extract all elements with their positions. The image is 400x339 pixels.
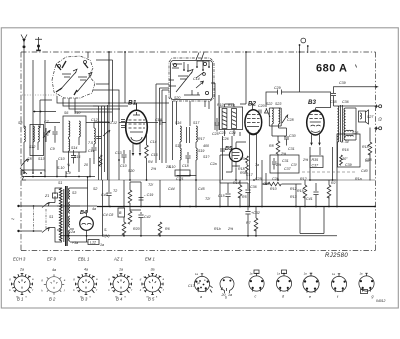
lamp box L12 — [88, 240, 99, 245]
svg-text:S15: S15 — [74, 155, 80, 159]
IF1 coil S16 — [180, 126, 181, 142]
svg-text:C39: C39 — [345, 163, 352, 167]
svg-text:7a: 7a — [255, 163, 259, 167]
svg-text:C25: C25 — [255, 177, 262, 181]
resistor R15 — [303, 185, 307, 198]
svg-text:C15: C15 — [218, 194, 225, 198]
svg-text:C43: C43 — [101, 193, 108, 197]
svg-text:b: b — [225, 296, 227, 300]
coil S9 — [33, 126, 34, 142]
svg-text:C24: C24 — [229, 131, 236, 135]
tuning gang enclosure — [52, 56, 95, 98]
lamp diagram c — [249, 270, 264, 299]
IF2 box rails — [269, 108, 281, 126]
svg-text:R35: R35 — [312, 158, 319, 162]
svg-text:R1a: R1a — [355, 177, 362, 181]
svg-text:S20: S20 — [174, 96, 180, 100]
wire — [94, 122, 109, 128]
svg-text:400: 400 — [203, 144, 209, 148]
svg-text:¼: ¼ — [67, 163, 70, 167]
wire — [262, 160, 288, 207]
svg-text:R13: R13 — [290, 195, 297, 199]
svg-text:4a: 4a — [92, 207, 96, 211]
svg-text:C36: C36 — [250, 185, 257, 189]
capacitor C21 box top — [175, 170, 190, 176]
svg-text:B3: B3 — [308, 99, 316, 106]
transformer core — [66, 186, 68, 246]
wire — [146, 134, 148, 180]
wire mains — [19, 206, 43, 231]
wire — [300, 45, 308, 92]
resistor R19 — [128, 190, 132, 203]
svg-text:S22: S22 — [266, 102, 272, 106]
svg-text:1.12: 1.12 — [110, 121, 117, 125]
resistor R20 — [122, 222, 126, 235]
svg-text:C36: C36 — [342, 100, 349, 104]
wire top link — [33, 111, 56, 113]
svg-text:+30°: +30° — [340, 157, 348, 161]
lamp diagram g — [359, 272, 374, 299]
ground — [35, 37, 42, 50]
lamp diagram b — [220, 277, 234, 300]
coil box S6 S10 — [63, 116, 86, 152]
svg-text:B5: B5 — [225, 146, 233, 152]
capacitor C9 — [52, 126, 57, 143]
svg-text:+C32: +C32 — [251, 211, 260, 215]
switch link dash — [34, 207, 47, 230]
wire B5 tails — [236, 168, 266, 184]
svg-text:L12: L12 — [90, 241, 96, 245]
wire vertical — [108, 52, 110, 180]
svg-text:RJ2580: RJ2580 — [325, 253, 348, 259]
switch contact lower — [42, 228, 49, 233]
tube B5 (tuning indicator) — [229, 148, 242, 167]
svg-text:T2!: T2! — [205, 197, 210, 201]
diode network box — [270, 155, 299, 173]
osc stub dots — [196, 66, 198, 68]
svg-text:S27: S27 — [367, 115, 374, 119]
svg-text:R2: R2 — [331, 181, 336, 185]
R35 C37 box — [310, 156, 323, 168]
svg-text:C15: C15 — [151, 153, 158, 157]
transformer primary S1 — [55, 188, 64, 242]
transformer secondary S2 — [69, 188, 70, 241]
svg-text:7.5: 7.5 — [88, 141, 93, 145]
node — [23, 172, 25, 174]
IF2 coil S22 — [272, 108, 273, 124]
coil unit box — [30, 125, 44, 156]
svg-text:EM 1: EM 1 — [145, 257, 155, 262]
svg-text:R0b: R0b — [240, 171, 247, 175]
svg-text:680 A: 680 A — [316, 63, 347, 75]
variable capacitor C2 — [77, 63, 92, 92]
svg-text:R10: R10 — [270, 187, 277, 191]
node — [376, 105, 378, 107]
switch contacts osc — [184, 81, 203, 95]
B box electrolytic — [118, 208, 125, 217]
svg-text:R15: R15 — [297, 189, 304, 193]
svg-text:S14: S14 — [71, 146, 77, 150]
tube B3 — [307, 108, 324, 146]
capacitor C36b — [245, 183, 250, 207]
node — [108, 102, 110, 104]
IF2 trimmer left — [265, 108, 271, 117]
svg-text:R1?: R1? — [300, 177, 307, 181]
terminal circles right — [379, 105, 382, 108]
svg-text:S1: S1 — [58, 181, 62, 185]
mains terminal lower — [17, 230, 19, 232]
coil S10 — [79, 121, 80, 137]
wire — [87, 177, 88, 242]
coil S13 — [38, 126, 39, 142]
svg-text:S1: S1 — [49, 215, 53, 219]
switch contact upper — [42, 203, 49, 208]
trimmer dots in gang — [58, 65, 61, 68]
osc inner wires — [169, 62, 198, 95]
lamp diagram e — [303, 271, 319, 299]
coil S6 — [69, 121, 70, 137]
wire pre-transformer rail — [25, 176, 95, 178]
dashed trace — [302, 171, 356, 173]
wire — [180, 176, 196, 207]
wire antenna lead — [23, 47, 25, 128]
resistor R0b — [246, 165, 249, 180]
wire avc bus — [46, 122, 109, 124]
svg-text:C44: C44 — [168, 187, 175, 191]
switch arrows lower left — [20, 160, 27, 180]
resistor R10h horizontal — [268, 182, 281, 186]
svg-text:C10: C10 — [120, 164, 127, 168]
capacitor C29 — [278, 90, 282, 95]
capacitor C30 — [284, 136, 289, 146]
node — [245, 51, 247, 53]
capacitor C13 — [121, 150, 126, 164]
resistor box outline — [220, 107, 243, 130]
svg-text:S25: S25 — [352, 131, 358, 135]
wire — [159, 233, 161, 236]
svg-text:T2: T2 — [113, 189, 117, 193]
output transformer core — [341, 105, 343, 142]
svg-text:R12: R12 — [290, 187, 297, 191]
wire x299 — [299, 91, 301, 93]
wire — [220, 142, 246, 207]
svg-text:C26: C26 — [263, 182, 270, 186]
wire — [33, 142, 38, 172]
capacitor C35 — [331, 94, 336, 96]
wire b1 cathode down — [129, 150, 131, 180]
wire — [124, 180, 160, 211]
svg-text:~: ~ — [11, 217, 15, 223]
switch arrow — [103, 130, 110, 136]
resistor R18b — [368, 142, 372, 155]
node — [87, 176, 89, 178]
wire — [225, 104, 235, 136]
resistor R4 — [145, 145, 149, 158]
lower bus — [60, 235, 337, 237]
svg-text:2%: 2% — [275, 163, 282, 167]
svg-text:T2!: T2! — [148, 183, 153, 187]
wire if1 bottom join — [177, 174, 197, 176]
capacitor in box — [272, 158, 277, 170]
svg-text:C8: C8 — [27, 157, 32, 161]
resistor R0a — [246, 156, 249, 165]
wire coil tails — [57, 158, 94, 177]
svg-text:C45: C45 — [198, 187, 205, 191]
wire b2 verticals — [240, 52, 257, 207]
resistor R21 — [327, 185, 331, 198]
svg-text:04012: 04012 — [376, 299, 386, 303]
svg-text:C2a: C2a — [210, 162, 217, 166]
capacitor C19 — [139, 198, 144, 201]
svg-text:C35: C35 — [330, 100, 337, 104]
mains terminal upper — [17, 205, 19, 207]
svg-text:S10: S10 — [74, 111, 80, 115]
osc switch stubs — [196, 61, 209, 78]
svg-text:C26: C26 — [222, 137, 229, 141]
svg-text:R11: R11 — [228, 103, 234, 107]
svg-text:S19: S19 — [198, 149, 204, 153]
svg-text:C3!: C3! — [291, 163, 297, 167]
svg-text:S.: S. — [104, 228, 107, 232]
node — [183, 69, 185, 71]
svg-text:B 3: B 3 — [81, 297, 88, 302]
wire avc C16 — [119, 122, 158, 124]
svg-text:3a: 3a — [151, 268, 155, 272]
svg-text:R5: R5 — [242, 195, 247, 199]
svg-text:S6: S6 — [64, 111, 68, 115]
svg-text:○2a: ○2a — [69, 230, 75, 234]
svg-text:EF 9: EF 9 — [47, 257, 56, 262]
wire — [248, 207, 256, 236]
resistor R14 — [238, 185, 242, 198]
wire under box — [223, 136, 233, 180]
wire bundle from gang — [40, 96, 133, 128]
wire box bottom — [300, 207, 324, 234]
svg-text:⌐3a: ⌐3a — [72, 241, 78, 245]
svg-text:4a: 4a — [52, 268, 56, 272]
resistor R10 — [222, 109, 227, 129]
top connector box — [22, 170, 45, 177]
wire — [288, 184, 302, 207]
resistor R1 — [99, 155, 102, 166]
wire — [272, 124, 287, 136]
svg-text:S3: S3 — [72, 191, 76, 195]
capacitor C43 — [106, 180, 111, 207]
svg-text:R6: R6 — [165, 227, 170, 231]
trimmer circles osc — [173, 63, 176, 66]
svg-text:S13: S13 — [38, 157, 44, 161]
lower bus dots — [68, 235, 257, 237]
svg-text:1a: 1a — [119, 268, 123, 272]
node — [124, 51, 126, 53]
svg-text:2%: 2% — [227, 227, 234, 231]
wire — [220, 180, 248, 207]
speaker — [359, 110, 369, 124]
dial cord dotted line — [22, 94, 57, 96]
svg-text:C29: C29 — [274, 86, 281, 90]
svg-text:2%: 2% — [302, 158, 309, 162]
capacitor C25 — [214, 118, 219, 132]
node — [374, 206, 376, 208]
IF1 core — [187, 127, 190, 143]
variable capacitor C1 — [56, 61, 77, 95]
wire osc-b2 verticals — [211, 83, 219, 130]
svg-text:EBL 1: EBL 1 — [78, 257, 89, 262]
svg-text:Ω: Ω — [378, 117, 382, 122]
wire b1 top feed — [124, 52, 126, 103]
svg-text:C14: C14 — [193, 77, 200, 81]
svg-text:4a: 4a — [84, 268, 88, 272]
svg-text:R10: R10 — [217, 103, 224, 107]
tube B2 — [245, 103, 262, 135]
capacitor C42 — [138, 212, 143, 222]
socket B3 — [73, 268, 98, 299]
svg-text:C20: C20 — [258, 104, 265, 108]
svg-text:1a: 1a — [100, 243, 104, 247]
wire right bottom — [305, 167, 337, 207]
svg-text:R18: R18 — [362, 145, 369, 149]
oscillator can rect — [171, 61, 213, 100]
svg-text:S.10: S.10 — [168, 165, 175, 169]
svg-text:R17: R17 — [198, 137, 206, 141]
svg-text:B 2: B 2 — [49, 297, 56, 302]
capacitor C20 — [259, 110, 261, 114]
svg-text:B4: B4 — [80, 210, 87, 216]
svg-text:20: 20 — [83, 163, 88, 167]
svg-text:C28: C28 — [287, 118, 294, 122]
bus junction dots — [109, 206, 338, 208]
svg-text:C41: C41 — [306, 197, 313, 201]
svg-text:ECH 3: ECH 3 — [13, 257, 26, 262]
svg-text:C18: C18 — [182, 164, 189, 168]
tube B1 — [126, 103, 148, 156]
socket B4 — [108, 268, 133, 299]
svg-text:R0a: R0a — [240, 157, 247, 161]
wire C39 line — [334, 87, 377, 106]
svg-text:B 4: B 4 — [116, 297, 123, 302]
wire — [310, 147, 320, 180]
fuse Z1 — [53, 193, 58, 198]
coil S11 — [94, 128, 95, 144]
svg-text:R8: R8 — [269, 144, 274, 148]
node — [33, 205, 35, 207]
wire — [23, 142, 25, 160]
svg-text:C12: C12 — [91, 118, 98, 122]
svg-text:C14: C14 — [150, 140, 157, 144]
svg-text:S23: S23 — [275, 102, 281, 106]
switch contact S12 — [21, 159, 29, 166]
svg-text:R20: R20 — [133, 227, 140, 231]
svg-text:C37: C37 — [284, 167, 292, 171]
capacitor C8 — [71, 150, 76, 164]
svg-text:g: g — [372, 295, 374, 299]
resistor R8 — [276, 141, 280, 154]
svg-text:2%: 2% — [150, 167, 157, 171]
antenna — [21, 35, 27, 48]
lamp diagram d — [276, 270, 291, 299]
capacitor C16 — [160, 120, 166, 125]
wire gang top links — [88, 52, 119, 111]
wire — [370, 128, 380, 181]
terminal circle top — [301, 38, 306, 43]
resistor R20b — [128, 211, 132, 224]
svg-text:S16: S16 — [175, 121, 181, 125]
resistor R11 — [232, 109, 237, 129]
wire osc leads — [133, 84, 209, 163]
wire — [124, 217, 141, 236]
IF1 coil S17 — [196, 126, 197, 142]
svg-text:e: e — [309, 295, 311, 299]
svg-text:Z1: Z1 — [44, 194, 49, 198]
svg-text:C2b: C2b — [272, 177, 279, 181]
svg-text:C31: C31 — [288, 147, 295, 151]
tube B4 rectifier — [80, 213, 94, 235]
wire secondary taps — [70, 188, 88, 242]
coil S8 — [24, 126, 25, 142]
capacitor C41 — [313, 183, 318, 207]
svg-text:S2: S2 — [93, 187, 97, 191]
wire left filter — [102, 180, 104, 236]
wire left vertical — [32, 60, 34, 172]
socket B1 — [9, 268, 34, 299]
svg-text:C9: C9 — [50, 147, 55, 151]
IF1 lower coil S19 — [196, 148, 197, 160]
svg-text:C 34: C 34 — [341, 140, 349, 144]
capacitor C32 — [245, 207, 250, 219]
IF1 lower coil S18 — [180, 148, 181, 160]
svg-text:C39: C39 — [339, 81, 346, 85]
svg-text:C31: C31 — [282, 159, 289, 163]
svg-text:2%: 2% — [280, 152, 287, 156]
coil S14 — [69, 139, 70, 151]
wire — [272, 136, 286, 180]
chassis dashed boundary — [21, 52, 376, 251]
wire — [332, 147, 334, 180]
resistor R6 — [158, 222, 162, 235]
output transformer primary S25 — [338, 106, 339, 142]
wire vertical — [118, 111, 120, 180]
svg-text:C25: C25 — [212, 132, 219, 136]
svg-text:S17: S17 — [193, 121, 200, 125]
svg-text:C23: C23 — [219, 131, 226, 135]
node row — [32, 176, 34, 178]
sprinkle labels — [27, 140, 372, 247]
svg-text:C42: C42 — [144, 215, 151, 219]
svg-text:B 5: B 5 — [148, 297, 155, 302]
hum coil S25 — [346, 130, 354, 136]
wire — [49, 196, 56, 237]
wire — [334, 106, 377, 167]
svg-text:C(N): C(N) — [102, 234, 110, 238]
svg-text:a: a — [200, 295, 202, 299]
variable capacitor C14 inside osc — [176, 69, 193, 92]
heater line dots — [129, 179, 333, 181]
node — [299, 44, 301, 46]
socket B2 — [41, 268, 65, 295]
svg-text:B 1: B 1 — [17, 297, 23, 302]
oscillator unit enclosure — [169, 58, 214, 101]
svg-text:←C19: ←C19 — [143, 193, 153, 197]
svg-text:R16: R16 — [342, 148, 349, 152]
coil box left rail — [96, 60, 113, 122]
svg-text:1a: 1a — [228, 293, 232, 297]
svg-text:C30: C30 — [289, 134, 296, 138]
trimmer C7 — [43, 128, 50, 142]
wire — [180, 142, 196, 180]
svg-text:C17: C17 — [188, 284, 196, 288]
svg-text:C11: C11 — [88, 149, 94, 153]
wire — [69, 137, 80, 172]
